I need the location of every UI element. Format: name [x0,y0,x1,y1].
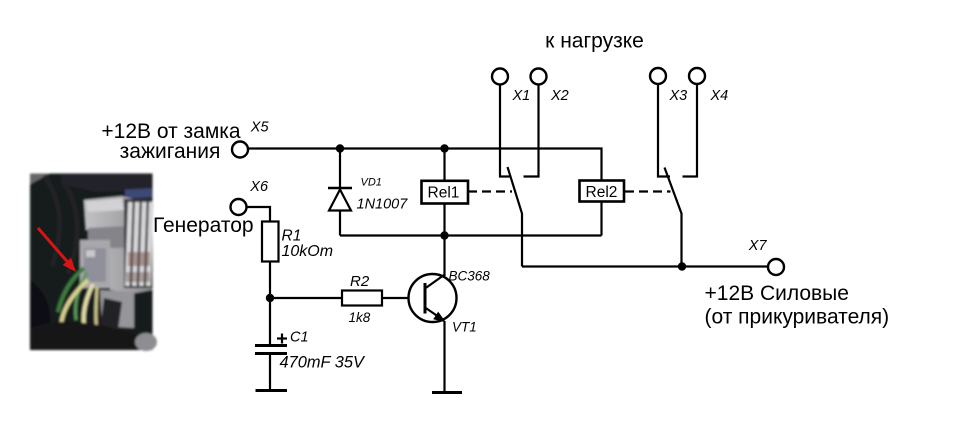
svg-text:1N1007: 1N1007 [357,197,409,213]
wire: X6 to R1 top [247,207,271,222]
terminal X3 [650,68,666,84]
svg-text:+12В Силовые: +12В Силовые [705,282,849,305]
capacitor C1 [255,344,287,347]
node: diode top on +12V rail [336,144,344,152]
relay coil Rel1 [422,181,469,204]
terminal X6 [231,199,247,215]
svg-text:зажигания: зажигания [120,140,221,163]
wire: coil bottom rail [340,234,602,236]
switch blade K1 [508,167,523,267]
dashed link Rel2 to blade [625,190,671,192]
wire: +12V rail from X5 to Rel2 top [248,149,602,180]
node: blade2 on power rail [678,262,686,270]
node: collector/coil junction [440,231,448,239]
svg-text:Rel1: Rel1 [428,185,460,202]
red arrow pointing to connector [38,228,76,272]
svg-text:R1: R1 [282,228,302,245]
dashed link Rel1 to blade [468,190,512,192]
svg-text:BC368: BC368 [449,269,491,284]
wire: X3 down to fixed contact [658,84,670,177]
wire: power rail to X7 [522,265,768,267]
wire: X2 down to fixed contact [524,85,539,177]
ground under emitter [432,391,462,394]
svg-text:10kOm: 10kOm [282,243,334,260]
terminal X1 [492,69,508,85]
wire: X1 down to fixed contact [500,85,511,177]
svg-text:X3: X3 [669,88,688,104]
wire: X4 down to fixed contact [683,84,698,177]
svg-text:X6: X6 [249,179,269,195]
terminal X2 [531,69,547,85]
svg-text:X1: X1 [512,88,531,104]
svg-text:470mF 35V: 470mF 35V [280,354,367,372]
svg-text:к нагрузке: к нагрузке [545,30,644,53]
wire: R2 to transistor base [382,297,425,299]
capacitor C1 plus sign [277,334,287,344]
terminal X4 [689,68,705,84]
switch blade K2 [665,168,682,267]
resistor R2 [342,291,382,306]
terminal X7 [768,259,784,275]
svg-text:1k8: 1k8 [349,310,371,325]
wire: Rel1 bottom to collector node [443,204,445,277]
svg-text:R2: R2 [350,273,370,290]
relay coil Rel2 [580,181,625,202]
transistor VT1 [409,274,457,322]
wire: R1 bottom to base node [269,262,271,299]
wire: Rel2 bottom [600,203,602,236]
resistor R1 [262,222,279,262]
photo inset of alternator connector [30,174,157,352]
wire: node to C1 top plate [269,298,271,344]
svg-text:Генератор: Генератор [153,214,254,237]
node: Rel1 top on +12V rail [440,144,448,152]
svg-text:X2: X2 [550,88,569,104]
svg-text:VT1: VT1 [452,320,477,335]
svg-text:(от прикуривателя): (от прикуривателя) [705,306,890,329]
svg-text:VD1: VD1 [361,177,382,189]
svg-text:X5: X5 [250,120,270,136]
ground under C1 [256,389,288,392]
node: junction R1/C1/R2 [266,294,274,302]
diode VD1 [328,149,352,236]
terminal X5 [232,142,248,158]
wire: C1 bottom to ground [269,355,271,390]
svg-text:X4: X4 [710,88,729,104]
wire: Rel1 top feed [443,149,445,181]
svg-text:X7: X7 [748,238,768,254]
svg-text:Rel2: Rel2 [586,184,618,201]
wire: base node to R2 [270,297,342,299]
svg-text:C1: C1 [290,330,309,346]
wire: emitter to ground [443,321,445,392]
